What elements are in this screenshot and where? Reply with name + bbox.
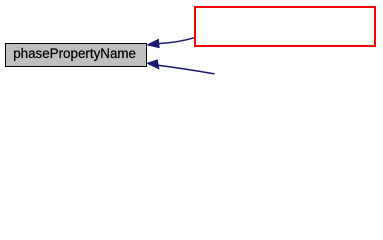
svg-text:phasePropertyName: phasePropertyName <box>13 46 136 61</box>
truncated caller node (red outline, clipped) <box>195 7 375 46</box>
caller edge from cropped-off node <box>146 59 215 74</box>
node phasePropertyName (current node, grey filled) <box>6 44 147 67</box>
caller edge from red node to phasePropertyName <box>146 38 194 49</box>
